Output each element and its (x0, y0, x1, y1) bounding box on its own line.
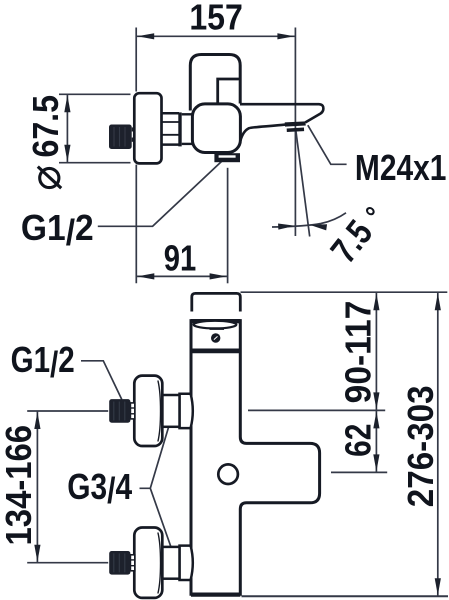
svg-text:67.5: 67.5 (26, 95, 66, 157)
svg-text:7.5°: 7.5° (324, 198, 394, 271)
svg-text:157: 157 (189, 0, 243, 38)
svg-text:62: 62 (339, 424, 379, 457)
svg-text:91: 91 (164, 238, 196, 279)
svg-text:M24x1: M24x1 (355, 148, 446, 188)
svg-text:134-166: 134-166 (0, 425, 39, 546)
svg-text:276-303: 276-303 (400, 385, 441, 507)
svg-text:G3/4: G3/4 (67, 467, 132, 511)
svg-text:90-117: 90-117 (338, 301, 379, 404)
svg-text:G1/2: G1/2 (11, 340, 75, 386)
svg-text:G1/2: G1/2 (21, 208, 94, 254)
